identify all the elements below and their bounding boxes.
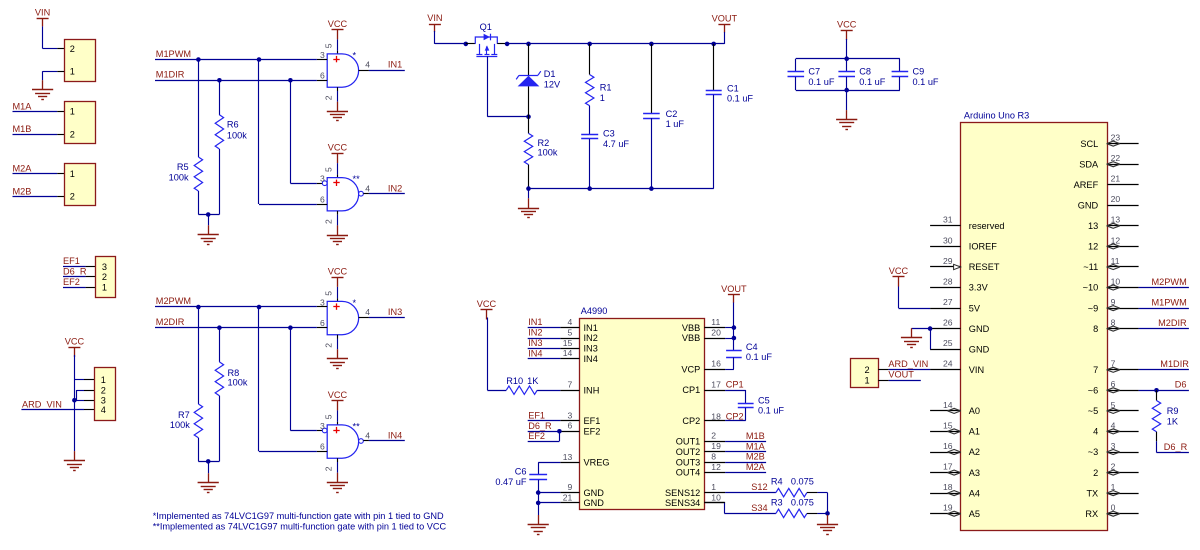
svg-text:3: 3: [320, 421, 325, 431]
svg-text:13: 13: [1088, 221, 1098, 231]
wire IN1: [528, 327, 561, 329]
wire ARD_VIN to pin 4: [21, 409, 94, 411]
svg-text:RESET: RESET: [969, 262, 1000, 272]
pin 20 VBB: [682, 327, 725, 343]
svg-text:EF1: EF1: [584, 416, 601, 426]
svg-text:15: 15: [563, 338, 573, 348]
svg-text:M1PWM: M1PWM: [1152, 298, 1187, 308]
svg-text:M2B: M2B: [13, 186, 32, 196]
pin 12 12: [1088, 235, 1139, 251]
junction: [536, 490, 541, 495]
svg-text:RX: RX: [1085, 509, 1098, 519]
junction: [217, 78, 222, 83]
wire VCC to R10: [487, 318, 506, 391]
pin 1 SENS12: [665, 482, 725, 498]
wire M1PWM rail: [155, 59, 317, 61]
pin 24 VIN: [930, 359, 984, 375]
svg-text:1: 1: [600, 93, 605, 103]
note gate implementation: [153, 511, 447, 532]
svg-text:M2DIR: M2DIR: [1158, 318, 1187, 328]
wire rail to VOUT: [507, 43, 724, 45]
pin 30 IOREF: [930, 235, 997, 251]
supply VCC arduino: [889, 266, 909, 287]
wire M2B: [13, 196, 65, 198]
resistor R10 1K: [506, 376, 539, 395]
pin 5 ~5: [1088, 400, 1139, 416]
svg-text:2: 2: [865, 365, 870, 375]
junction: [587, 42, 592, 47]
svg-text:VIN: VIN: [35, 8, 50, 18]
supply VIN: [35, 8, 50, 27]
svg-text:A4: A4: [969, 488, 980, 498]
wire VCC to gate pin 5: [337, 287, 339, 302]
svg-text:28: 28: [943, 276, 953, 286]
svg-text:GND: GND: [969, 344, 990, 354]
pin 9 GND: [560, 482, 604, 498]
svg-text:M1A: M1A: [746, 441, 766, 451]
ground: [327, 473, 348, 493]
pin 4 output: [359, 307, 371, 317]
svg-text:~6: ~6: [1088, 386, 1098, 396]
pin 4 4: [1093, 420, 1139, 436]
svg-text:7: 7: [1093, 365, 1098, 375]
pin 16 A2: [930, 441, 980, 457]
svg-text:4: 4: [101, 405, 106, 415]
wire M2B: [725, 462, 766, 464]
svg-text:100k: 100k: [227, 131, 247, 141]
svg-text:3: 3: [320, 297, 325, 307]
svg-text:0.075: 0.075: [791, 498, 814, 508]
svg-text:2: 2: [70, 44, 75, 54]
junction: [288, 78, 293, 83]
wire EF2 up to pin 6: [528, 431, 560, 441]
svg-text:IN4: IN4: [388, 431, 402, 441]
junction: [196, 305, 201, 310]
svg-text:SDA: SDA: [1079, 159, 1099, 169]
wire M1B: [13, 134, 65, 136]
svg-text:12: 12: [711, 462, 721, 472]
svg-text:5: 5: [323, 167, 333, 172]
svg-text:30: 30: [943, 235, 953, 245]
pin 3: [317, 174, 327, 186]
wire IN1: [369, 70, 405, 72]
svg-text:C7: C7: [808, 67, 820, 77]
resistor R5: [169, 60, 203, 215]
svg-text:26: 26: [943, 318, 953, 328]
junction: [526, 114, 531, 119]
junction: [732, 325, 737, 330]
svg-text:~9: ~9: [1088, 303, 1098, 313]
wire VCC to gate pin 5: [337, 163, 339, 178]
pin 29 RESET: [930, 256, 1000, 272]
svg-text:3: 3: [102, 262, 107, 272]
svg-text:6: 6: [320, 318, 325, 328]
pin 4 output: [359, 60, 371, 71]
wire to ground: [208, 461, 210, 473]
svg-text:17: 17: [711, 379, 721, 389]
ground: [518, 198, 539, 217]
svg-text:25: 25: [943, 338, 953, 348]
svg-text:D6_R: D6_R: [528, 421, 552, 431]
pin 17 CP1: [682, 379, 725, 395]
wire D6: [1139, 390, 1189, 392]
svg-text:ARD_VIN: ARD_VIN: [888, 359, 928, 369]
connector M2 2-pin: [65, 164, 96, 206]
wire GND pins: [912, 329, 931, 350]
svg-text:1K: 1K: [527, 376, 539, 386]
supply VCC A4990: [477, 299, 497, 320]
wire IN2: [528, 338, 561, 340]
wire VOUT to VBB: [725, 303, 734, 352]
svg-text:100k: 100k: [170, 420, 190, 430]
svg-text:VREG: VREG: [584, 458, 610, 468]
pin 19 A5: [930, 503, 980, 519]
capacitor C2: [643, 44, 684, 189]
svg-text:EF1: EF1: [528, 410, 545, 420]
resistor R9 1K: [1152, 390, 1179, 441]
svg-text:100k: 100k: [538, 148, 558, 158]
pin 7 7: [1093, 359, 1139, 375]
svg-text:3: 3: [568, 410, 573, 420]
svg-text:SCL: SCL: [1080, 139, 1098, 149]
svg-text:M2A: M2A: [746, 462, 766, 472]
wire M1DIR to gate2 pin 3: [290, 80, 316, 183]
pin 18 A4: [930, 482, 980, 498]
op-amp gate U4 (**): [327, 421, 360, 458]
connector ARDVIN 4-pin: [95, 368, 116, 421]
wire VCC to pin 1 and down to ground: [74, 355, 94, 451]
wire M2PWM: [1139, 287, 1189, 289]
svg-text:1: 1: [70, 107, 75, 117]
svg-text:R7: R7: [178, 410, 190, 420]
supply VCC caps: [837, 19, 857, 40]
pin 13 VREG: [560, 452, 609, 468]
svg-text:0.1 uF: 0.1 uF: [808, 77, 834, 87]
svg-text:21: 21: [1111, 174, 1121, 184]
pin 2: [323, 458, 337, 473]
svg-text:4: 4: [365, 307, 370, 317]
junction: [557, 429, 562, 434]
svg-text:M2B: M2B: [746, 452, 765, 462]
svg-text:1: 1: [70, 169, 75, 179]
ground: [528, 515, 549, 535]
op-amp gate U3 (*): [327, 298, 358, 335]
wire EF2: [63, 287, 95, 289]
wire SENS12 to R4: [725, 492, 776, 494]
pin 1 TX: [1086, 482, 1138, 498]
wire cap top rail: [796, 58, 900, 60]
pin 2: [323, 211, 337, 226]
svg-text:19: 19: [711, 441, 721, 451]
svg-text:R3: R3: [771, 498, 783, 508]
svg-text:0.47 uF: 0.47 uF: [495, 477, 527, 487]
wire R5/R6 bottoms: [198, 214, 219, 216]
svg-text:A2: A2: [969, 447, 980, 457]
wire Q1 gate: [487, 56, 528, 116]
svg-text:17: 17: [943, 462, 953, 472]
svg-text:0.075: 0.075: [791, 477, 814, 487]
pin 15 IN3: [560, 338, 598, 354]
svg-text:R10: R10: [506, 376, 523, 386]
svg-text:M1DIR: M1DIR: [156, 70, 185, 80]
ground: [327, 225, 348, 244]
svg-text:IN2: IN2: [584, 333, 598, 343]
svg-text:8: 8: [711, 452, 716, 462]
svg-text:R2: R2: [538, 138, 550, 148]
pin 9 ~9: [1088, 297, 1139, 313]
svg-text:1: 1: [102, 283, 107, 293]
svg-text:OUT2: OUT2: [676, 447, 701, 457]
svg-text:*: *: [353, 298, 357, 308]
wire C4 to VCP: [725, 357, 734, 369]
svg-text:VCC: VCC: [65, 336, 85, 346]
pin 3 EF1: [560, 410, 600, 426]
resistor R4 0.075: [771, 477, 814, 497]
svg-text:6: 6: [320, 442, 325, 452]
resistor R7: [170, 307, 203, 461]
svg-text:R1: R1: [600, 83, 612, 93]
VCC supply gate U3: [328, 266, 348, 287]
wire M1B: [725, 441, 766, 443]
wire IN3: [369, 317, 405, 319]
svg-text:C5: C5: [758, 396, 770, 406]
capacitor C6: [495, 467, 547, 487]
svg-text:14: 14: [943, 400, 953, 410]
pin 3 ~3: [1088, 441, 1139, 457]
svg-text:**: **: [353, 421, 361, 431]
svg-text:21: 21: [563, 492, 573, 502]
wire VCC to 5V pin: [899, 287, 931, 309]
svg-text:~11: ~11: [1083, 262, 1098, 272]
pin 6: [317, 318, 327, 328]
pin 6 ~6: [1088, 379, 1139, 395]
wire VREG to C6: [538, 463, 560, 475]
junction: [649, 42, 654, 47]
svg-text:CP1: CP1: [726, 379, 744, 389]
svg-text:16: 16: [711, 359, 721, 369]
svg-text:100k: 100k: [228, 378, 248, 388]
resistor R1: [586, 44, 612, 135]
pin 13 13: [1088, 215, 1139, 231]
pin 21 GND: [560, 492, 604, 508]
pin 18 CP2: [682, 412, 725, 426]
svg-text:D6: D6: [1175, 380, 1187, 390]
svg-text:OUT1: OUT1: [676, 437, 701, 447]
svg-text:IN2: IN2: [528, 328, 542, 338]
wire D6_R: [63, 276, 95, 278]
svg-text:1 uF: 1 uF: [666, 119, 685, 129]
wire M2A: [725, 472, 766, 474]
svg-text:4: 4: [568, 317, 573, 327]
svg-text:15: 15: [943, 420, 953, 430]
svg-text:VCC: VCC: [837, 19, 857, 29]
ground: [327, 102, 348, 121]
supply VIN power: [427, 13, 442, 32]
pin 4 output: [359, 431, 371, 444]
svg-text:M2A: M2A: [13, 164, 33, 174]
wire pin 2 branch: [77, 390, 95, 400]
svg-text:A1: A1: [969, 427, 980, 437]
junction: [649, 186, 654, 191]
svg-text:VBB: VBB: [682, 333, 700, 343]
svg-text:GND: GND: [1078, 201, 1099, 211]
ground: [198, 225, 219, 244]
svg-text:27: 27: [943, 297, 953, 307]
svg-text:11: 11: [711, 317, 720, 327]
pin 27 5V: [930, 297, 981, 313]
pin Q1 drain: [497, 43, 507, 45]
junction: [844, 56, 849, 61]
wire IN3: [528, 348, 561, 350]
junction: [711, 42, 716, 47]
svg-text:VCC: VCC: [477, 299, 497, 309]
ground: [836, 110, 857, 129]
resistor R8: [215, 328, 248, 462]
wire IN4: [528, 358, 561, 360]
capacitor C8: [838, 59, 885, 90]
wire C6 to GND pins: [538, 480, 560, 515]
pin 3: [317, 50, 327, 60]
svg-text:2: 2: [70, 192, 75, 202]
svg-text:AREF: AREF: [1074, 180, 1099, 190]
wire M2DIR rail: [155, 327, 317, 329]
wire R7/R8 bottoms: [198, 461, 219, 463]
svg-text:M2PWM: M2PWM: [1152, 277, 1187, 287]
wire M2PWM rail: [155, 306, 317, 308]
svg-text:*: *: [353, 50, 357, 60]
connector M1 2-pin: [65, 102, 96, 144]
svg-text:VCP: VCP: [681, 364, 700, 374]
svg-text:C8: C8: [859, 67, 871, 77]
wire VIN to connector pin 2: [43, 26, 65, 48]
svg-text:5: 5: [323, 291, 333, 296]
capacitor C1: [706, 44, 754, 189]
pin 15 A1: [930, 420, 980, 436]
svg-text:GND: GND: [584, 498, 605, 508]
wire IN4: [369, 440, 405, 442]
svg-text:VIN: VIN: [969, 365, 984, 375]
svg-text:M2PWM: M2PWM: [156, 296, 191, 306]
svg-text:0.1 uF: 0.1 uF: [746, 352, 772, 362]
pin 19 OUT2: [676, 441, 725, 457]
connector ARDVIN-VOUT 2-pin: [851, 359, 879, 388]
pin 8 OUT3: [676, 452, 725, 468]
pin 5 IN2: [560, 327, 598, 343]
pin 0 RX: [1085, 503, 1138, 519]
junction: [217, 325, 222, 330]
wire pin 3 branch: [74, 400, 94, 402]
svg-text:3: 3: [320, 50, 325, 60]
pin 10 ~10: [1083, 276, 1139, 292]
pin 3: [317, 421, 327, 433]
junction: [257, 57, 262, 62]
svg-text:R6: R6: [227, 120, 239, 130]
svg-text:VCC: VCC: [328, 19, 348, 29]
junction: [526, 186, 531, 191]
svg-text:6: 6: [568, 421, 573, 431]
svg-text:C2: C2: [666, 109, 678, 119]
pin 11 ~11: [1083, 256, 1138, 272]
svg-text:0.1 uF: 0.1 uF: [727, 94, 753, 104]
pin 2 2: [1093, 462, 1139, 478]
svg-text:D6_R: D6_R: [1164, 442, 1188, 452]
svg-text:EF2: EF2: [528, 431, 545, 441]
junction: [196, 57, 201, 62]
wire M1DIR rail: [155, 80, 317, 82]
wire M1PWM to gate2 pin 6: [259, 60, 317, 205]
svg-text:0.1 uF: 0.1 uF: [913, 77, 939, 87]
wire C5 to CP2: [725, 408, 746, 421]
svg-text:C9: C9: [913, 67, 925, 77]
svg-text:IN1: IN1: [584, 323, 598, 333]
svg-text:A3: A3: [969, 468, 980, 478]
ground: [327, 349, 348, 368]
svg-text:GND: GND: [584, 488, 605, 498]
svg-text:VOUT: VOUT: [888, 370, 914, 380]
svg-text:0.1 uF: 0.1 uF: [859, 77, 885, 87]
ground: [64, 451, 85, 470]
wire M1A: [725, 451, 766, 453]
svg-text:S34: S34: [751, 503, 767, 513]
pin 4 output: [359, 183, 371, 196]
junction: [257, 305, 262, 310]
svg-text:OUT4: OUT4: [676, 468, 701, 478]
svg-text:4: 4: [365, 183, 370, 193]
pin 28 3.3V: [930, 276, 988, 292]
wire ARD_VIN to VIN pin: [878, 369, 930, 371]
capacitor C3: [581, 128, 629, 188]
junction: [1154, 388, 1159, 393]
svg-text:EF2: EF2: [63, 277, 80, 287]
svg-text:M1B: M1B: [13, 124, 32, 134]
svg-text:20: 20: [711, 327, 721, 337]
pin 14 A0: [930, 400, 980, 416]
ground: [198, 473, 219, 492]
svg-text:12: 12: [1088, 242, 1098, 252]
svg-text:D6_R: D6_R: [63, 267, 87, 277]
svg-text:29: 29: [943, 256, 953, 266]
svg-text:D1: D1: [544, 69, 556, 79]
svg-text:reserved: reserved: [969, 221, 1005, 231]
ground: [32, 80, 53, 99]
ground: [817, 515, 838, 535]
junction: [587, 186, 592, 191]
connector EF 3-pin: [96, 257, 116, 298]
svg-text:14: 14: [563, 348, 573, 358]
svg-text:5: 5: [323, 43, 333, 48]
svg-text:2: 2: [323, 466, 333, 471]
junction: [928, 326, 933, 331]
svg-text:19: 19: [943, 503, 953, 513]
svg-text:**: **: [353, 174, 361, 184]
svg-text:VIN: VIN: [427, 13, 442, 23]
svg-text:2: 2: [711, 431, 716, 441]
svg-text:M2DIR: M2DIR: [156, 317, 185, 327]
wire R3 to ground: [807, 513, 828, 515]
svg-text:C3: C3: [603, 128, 615, 138]
svg-text:3: 3: [101, 396, 106, 406]
wire SENS34 to R3: [704, 503, 776, 514]
capacitor C7: [788, 59, 835, 90]
svg-text:EF2: EF2: [584, 427, 601, 437]
wire EF1: [528, 420, 561, 422]
junction: [288, 325, 293, 330]
svg-text:C1: C1: [727, 83, 739, 93]
wire EF1: [63, 266, 95, 268]
svg-text:1: 1: [865, 375, 870, 385]
svg-text:C6: C6: [515, 467, 527, 477]
wire to ground: [846, 90, 848, 110]
